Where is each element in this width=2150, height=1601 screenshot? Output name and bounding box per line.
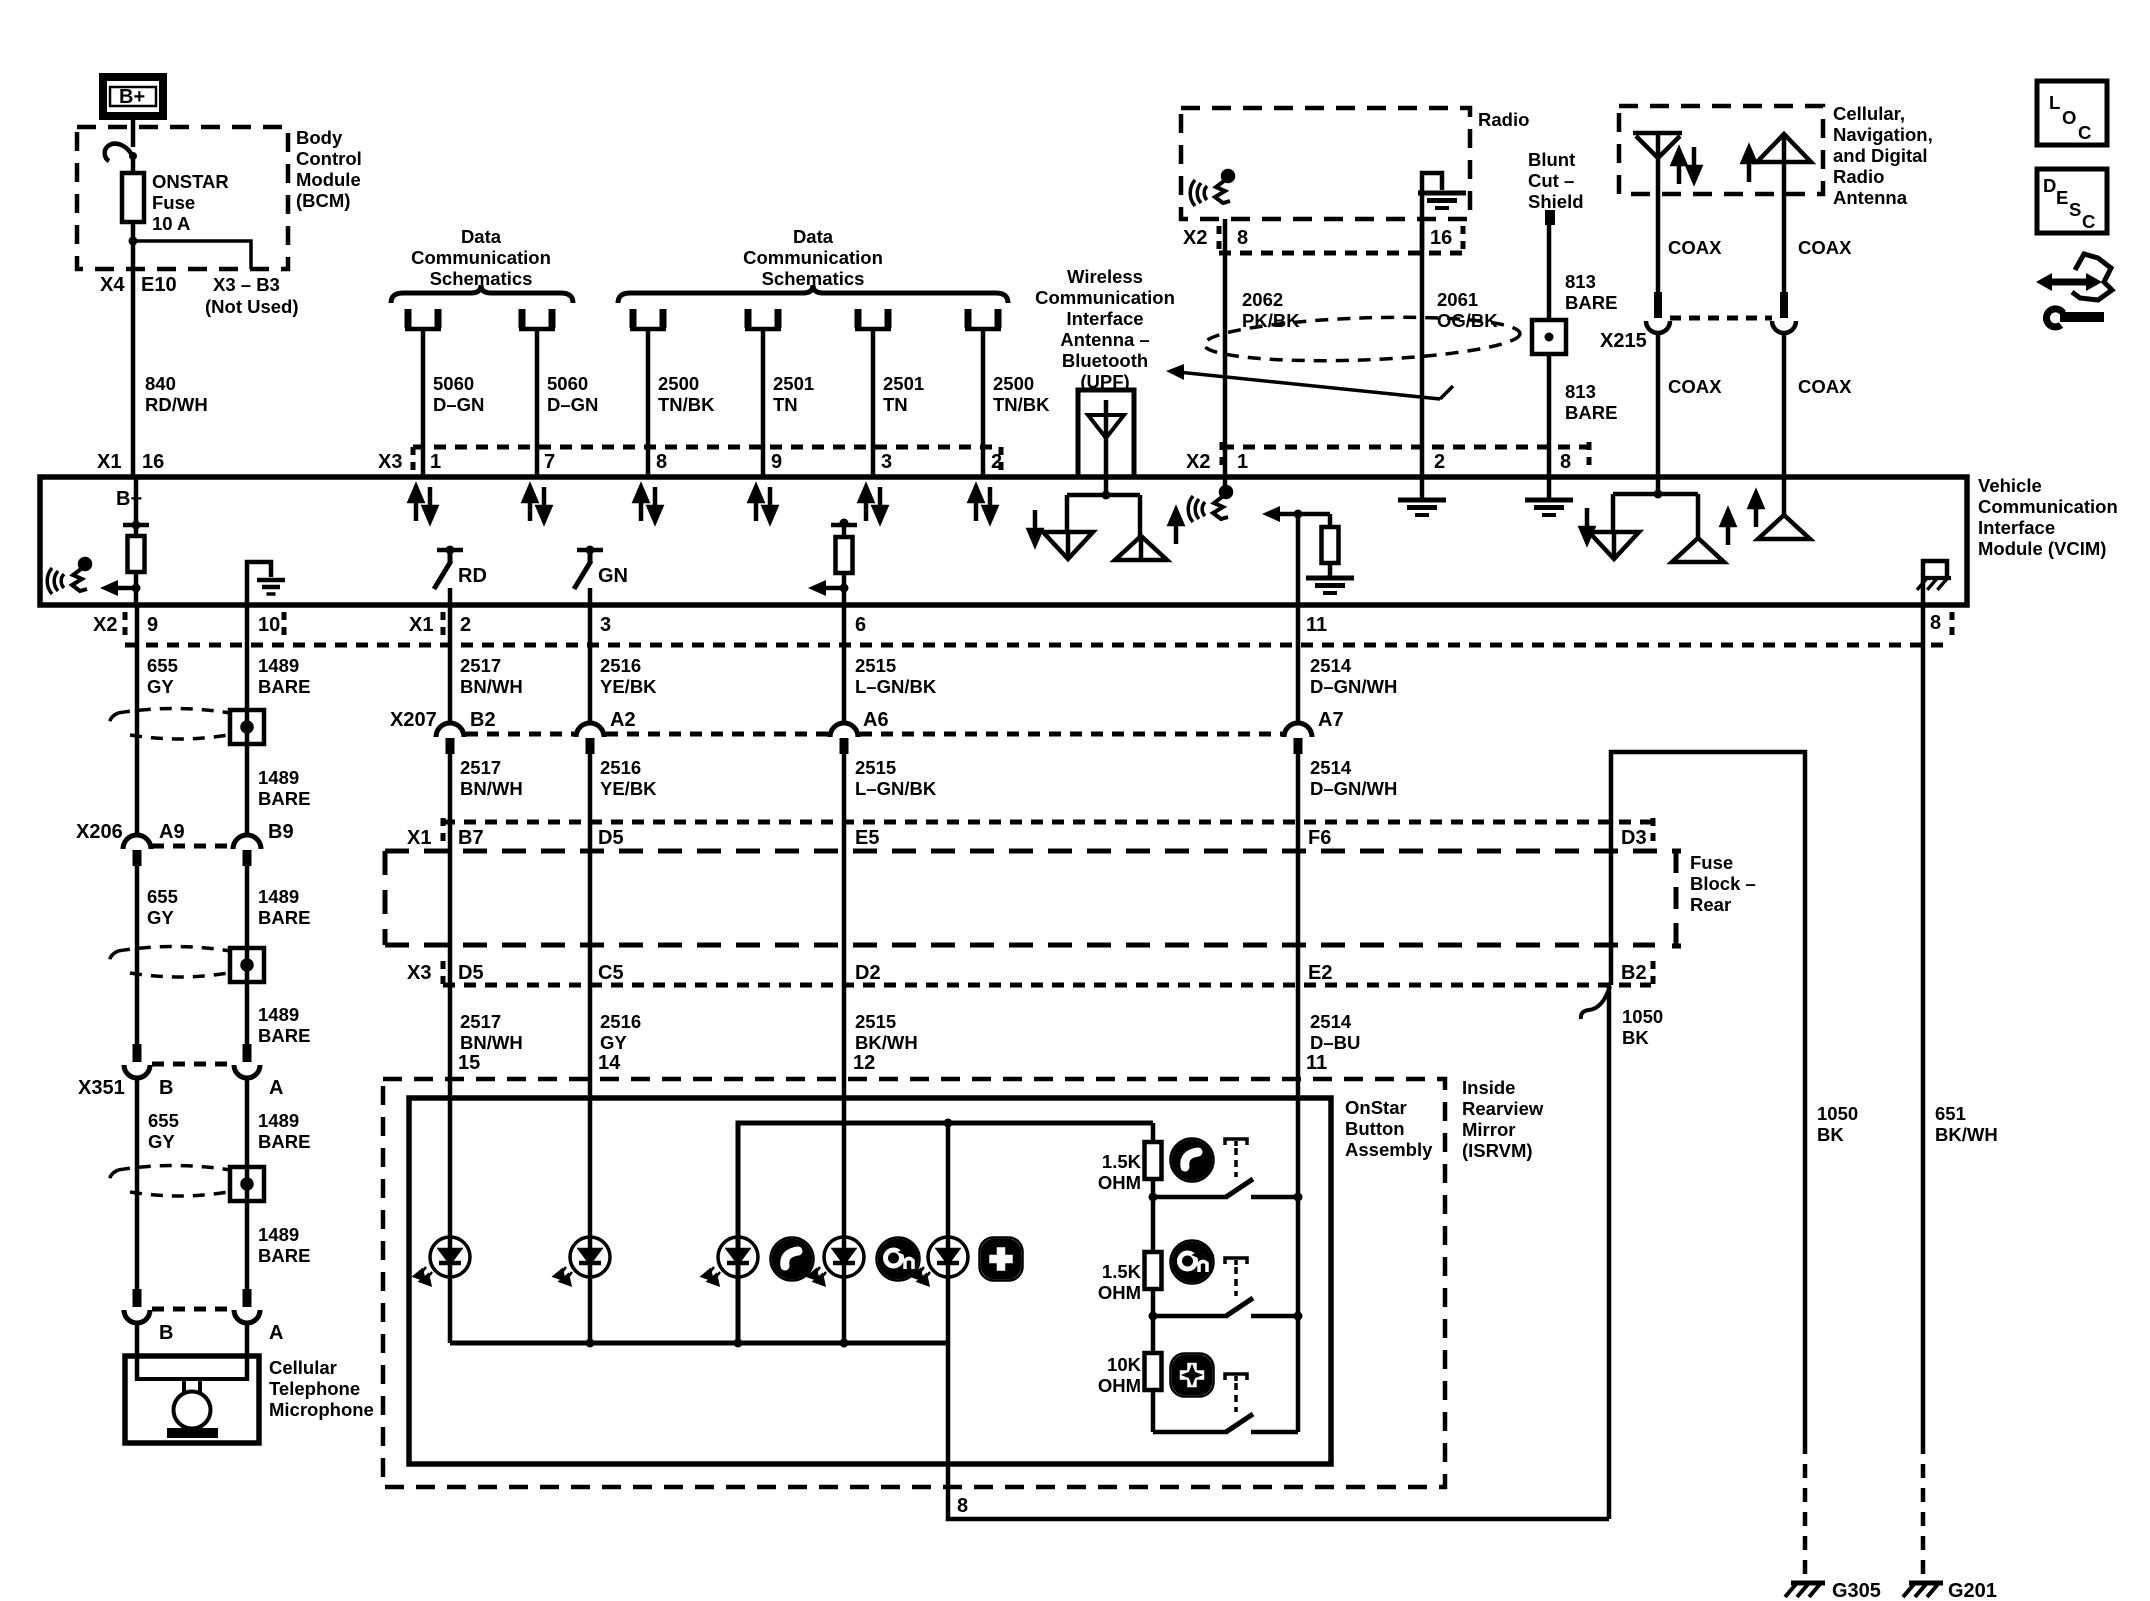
svg-text:3: 3 [881,451,892,473]
svg-text:L–GN/BK: L–GN/BK [855,676,937,697]
Fuse Block Rear label bracket [1672,851,1681,946]
svg-text:Mirror: Mirror [1462,1119,1515,1140]
svg-text:Body: Body [296,127,343,148]
svg-text:(BCM): (BCM) [296,190,350,211]
svg-text:Cut –: Cut – [1528,170,1574,191]
svg-text:D–BU: D–BU [1310,1032,1360,1053]
Body Control Module (BCM) dashed box [77,127,288,269]
svg-text:2517: 2517 [460,655,501,676]
wire 651 BK/WH [1921,605,1926,1440]
svg-text:Radio: Radio [1478,109,1529,130]
svg-text:X4: X4 [100,274,125,296]
svg-text:A9: A9 [159,821,185,843]
svg-text:Module (VCIM): Module (VCIM) [1978,538,2106,559]
svg-text:15: 15 [458,1052,480,1074]
svg-text:1050: 1050 [1622,1006,1663,1027]
internal chassis ground pin 8 VCIM right [1917,561,1951,605]
svg-text:(ISRVM): (ISRVM) [1462,1140,1533,1161]
wire 2516 YE/BK seg2 [588,752,593,822]
svg-text:BK: BK [1622,1027,1649,1048]
svg-text:2515: 2515 [855,655,896,676]
svg-text:TN: TN [883,394,908,415]
internal up arrow coax2 [1750,493,1762,527]
svg-text:OnStar: OnStar [1345,1097,1407,1118]
svg-text:COAX: COAX [1668,376,1722,397]
svg-text:2061: 2061 [1437,289,1478,310]
resistor 10K OHM row3 [1098,1353,1162,1396]
svg-text:COAX: COAX [1668,237,1722,258]
svg-text:C5: C5 [598,962,624,984]
svg-text:651: 651 [1935,1103,1966,1124]
svg-text:3: 3 [600,614,611,636]
splice hook at B2 [1581,986,1610,1019]
wire 2515 L-GN/BK seg2 [842,752,847,822]
wires through fuse block [448,822,453,985]
svg-text:B: B [159,1077,173,1099]
svg-text:Assembly: Assembly [1345,1139,1433,1160]
svg-text:840: 840 [145,373,176,394]
X206 row dashed [152,844,232,849]
svg-text:D–GN/WH: D–GN/WH [1310,676,1397,697]
LED 2 [556,1237,610,1284]
svg-text:655: 655 [147,886,178,907]
svg-text:Telephone: Telephone [269,1378,360,1399]
svg-text:RD/WH: RD/WH [145,394,208,415]
svg-text:9: 9 [147,614,158,636]
svg-text:2516: 2516 [600,1011,641,1032]
svg-text:8: 8 [1237,227,1248,249]
node rail 12 [840,1339,849,1348]
service icon arrows and wrench [2036,254,2112,327]
svg-text:12: 12 [853,1052,875,1074]
svg-text:655: 655 [147,655,178,676]
UPF internal antenna up [1115,536,1167,560]
wire 8 out of button assembly [948,1343,1609,1519]
wire 2517 BN/WH seg3 [448,985,453,1079]
svg-text:BN/WH: BN/WH [460,1032,523,1053]
X351 row dashed [152,1062,232,1067]
svg-text:2500: 2500 [993,373,1034,394]
power feed B+ box [103,77,163,116]
DESC reference box [2037,169,2107,233]
svg-text:813: 813 [1565,381,1596,402]
Vehicle Communication Interface Module (VCIM) box [40,477,1967,605]
data receptacle pin 1 [405,309,441,329]
svg-text:A: A [269,1322,283,1344]
svg-text:F6: F6 [1308,827,1331,849]
svg-text:7: 7 [544,451,555,473]
wire 655 GY upper [135,605,140,836]
svg-text:D2: D2 [855,962,881,984]
svg-text:TN/BK: TN/BK [993,394,1050,415]
svg-text:BARE: BARE [258,907,310,928]
wire 2500 TN/BK pin 8 [646,330,651,477]
svg-text:L: L [2049,92,2060,113]
connector X206 A9 [123,835,151,866]
svg-text:2062: 2062 [1242,289,1283,310]
svg-text:X1: X1 [407,827,431,849]
wire pin 12 to LED4 [842,1079,847,1343]
svg-text:2517: 2517 [460,1011,501,1032]
resistor 1.5K OHM row2 [1098,1252,1162,1303]
svg-text:BARE: BARE [258,1245,310,1266]
wire B2 down to loop bottom [1607,985,1612,1519]
wire to internal ground pin 11 [1328,563,1333,578]
wire 813 BARE upper [1547,224,1552,320]
data receptacle pin 8 [630,309,666,329]
svg-text:Communication: Communication [1978,496,2118,517]
svg-text:Data: Data [461,226,502,247]
wire 1489 BARE mid [245,866,250,1044]
GN switch inside VCIM [574,546,628,606]
wire 2517 BN/WH seg1 [448,605,453,723]
svg-text:10 A: 10 A [152,213,190,234]
connector X207 A7 [1284,723,1312,754]
wire switch to fuse [131,155,136,173]
svg-text:TN/BK: TN/BK [658,394,715,415]
svg-text:2: 2 [460,614,471,636]
svg-text:1.5K: 1.5K [1102,1151,1142,1172]
push switch row2 [1149,1258,1303,1321]
phone key icon [771,1238,814,1281]
svg-text:D–GN: D–GN [433,394,484,415]
COAX wire right lower [1782,333,1787,477]
connector X351 A [234,1044,260,1078]
blunt cut terminal [1545,210,1555,225]
internal resistor to ground pin 11 [1262,506,1330,605]
shield splice crimp 2 [230,948,264,982]
svg-text:GY: GY [147,676,174,697]
svg-text:Data: Data [793,226,834,247]
svg-text:1: 1 [430,451,441,473]
svg-text:Block –: Block – [1690,873,1756,894]
svg-text:8: 8 [656,451,667,473]
wire 2517 BN/WH seg2 [448,752,453,822]
connector X207 B2 [436,723,464,754]
svg-text:9: 9 [771,451,782,473]
internal antenna down [1589,532,1639,559]
svg-text:10: 10 [258,614,280,636]
svg-text:X1: X1 [409,614,433,636]
svg-text:and Digital: and Digital [1833,145,1928,166]
data receptacle pin 3 [855,309,891,329]
OnStar key icon [877,1238,920,1281]
UPF antenna module box [1078,390,1134,477]
svg-text:A7: A7 [1318,709,1344,731]
shield splice crimp 1 [230,710,264,744]
svg-text:BARE: BARE [1565,292,1617,313]
svg-text:Antenna: Antenna [1833,187,1908,208]
push switch row3 [1153,1374,1298,1432]
wire D3 to 1050 BK loop top [1611,752,1805,1440]
twisted pair ellipse 1 [110,709,230,740]
svg-text:GN: GN [598,565,628,587]
fuse block X3 row dotted [443,983,1651,988]
Cellular Telephone Microphone box [125,1356,259,1443]
resistor chain wire top [1151,1123,1156,1142]
svg-text:D–GN/WH: D–GN/WH [1310,778,1397,799]
node at fuse output [129,237,138,246]
wire pin 15 to LED1 [448,1079,453,1343]
svg-text:Antenna –: Antenna – [1060,329,1149,350]
wire fuse to node [131,222,136,269]
wire 2501 TN pin 9 [761,330,766,477]
svg-text:2514: 2514 [1310,655,1352,676]
brace 1 [391,285,573,303]
internal down arrow [1581,508,1593,542]
UPF internal junction [1067,477,1140,536]
data arrows pin 2 [970,487,996,521]
UPF internal antenna down [1043,532,1093,559]
phone key icon row1 [1171,1139,1214,1182]
microphone connector A [234,1289,260,1323]
svg-text:E10: E10 [141,274,177,296]
svg-text:D–GN: D–GN [547,394,598,415]
twisted pair ellipse 2 [110,947,230,978]
coax connector left [1646,292,1670,333]
wire pin 14 to LED2 [588,1079,593,1343]
UPF antenna symbol [1088,400,1124,477]
svg-text:E: E [2056,187,2068,208]
wire into microphone B [135,1323,140,1381]
twisted shield dashed ellipse [1203,312,1520,365]
svg-text:BARE: BARE [258,1131,310,1152]
svg-text:O: O [2062,107,2076,128]
svg-text:1489: 1489 [258,1224,299,1245]
svg-text:Interface: Interface [1978,517,2055,538]
svg-text:Cellular: Cellular [269,1357,337,1378]
svg-text:Rearview: Rearview [1462,1098,1544,1119]
svg-text:16: 16 [1430,227,1452,249]
node LED5 feed [944,1119,953,1128]
svg-text:YE/BK: YE/BK [600,778,657,799]
LED 3 [704,1237,758,1284]
svg-text:TN: TN [773,394,798,415]
svg-text:E5: E5 [855,827,879,849]
X207 row dashed lines [466,732,574,737]
wire 813 BARE lower [1547,354,1552,477]
data arrows pin 9 [750,487,776,521]
svg-text:2501: 2501 [773,373,814,394]
digital antenna symbol [1757,134,1811,293]
wire chain row2-row3 [1151,1316,1156,1353]
svg-text:BK/WH: BK/WH [1935,1124,1998,1145]
wire B+ into BCM [131,116,136,147]
svg-text:2501: 2501 [883,373,924,394]
LOC reference box [2037,81,2107,145]
data receptacle pin 9 [745,309,781,329]
svg-text:1489: 1489 [258,1004,299,1025]
svg-text:1489: 1489 [258,655,299,676]
internal coax junction VCIM [1613,477,1698,538]
svg-text:X2: X2 [1183,227,1207,249]
svg-text:1489: 1489 [258,886,299,907]
svg-text:16: 16 [142,451,164,473]
coax connector right [1772,292,1796,333]
svg-text:Module: Module [296,169,361,190]
wire 2514 D-GN/WH seg2 [1296,752,1301,822]
svg-text:10K: 10K [1107,1354,1142,1375]
svg-text:X207: X207 [390,709,437,731]
wireless handset icon VCIM left [47,559,90,594]
connector X206 B9 [233,835,261,866]
svg-text:A2: A2 [610,709,636,731]
svg-text:Navigation,: Navigation, [1833,124,1933,145]
brace 2 [618,285,1008,303]
wire 2515 L-GN/BK seg1 [842,605,847,723]
wire 2514 D-GN/WH seg1 [1296,605,1301,723]
svg-text:BARE: BARE [1565,402,1617,423]
svg-text:B2: B2 [1621,962,1647,984]
svg-text:BN/WH: BN/WH [460,778,523,799]
svg-text:655: 655 [148,1110,179,1131]
internal ground pin 2 radio [1398,477,1446,515]
svg-text:A6: A6 [863,709,889,731]
UPF down arrow [1029,510,1041,544]
svg-text:A: A [269,1077,283,1099]
resistor 1.5K OHM row1 [1098,1142,1162,1193]
data receptacle pin 7 [519,309,555,329]
antenna arrows up/down [1673,150,1685,184]
svg-text:COAX: COAX [1798,237,1852,258]
svg-text:OHM: OHM [1098,1375,1141,1396]
svg-text:B2: B2 [470,709,496,731]
svg-text:X1: X1 [97,451,121,473]
wireless handset icon under pin X2-1 [1188,477,1231,522]
svg-text:11: 11 [1306,614,1327,636]
svg-text:2517: 2517 [460,757,501,778]
connector X351 B [124,1044,150,1078]
svg-text:OG/BK: OG/BK [1437,310,1498,331]
svg-text:2: 2 [1434,451,1445,473]
wire 2516 YE/BK seg1 [588,605,593,723]
wire 2062 PK/BK [1223,219,1228,477]
svg-text:X2: X2 [93,614,117,636]
svg-text:GY: GY [600,1032,627,1053]
Radio dashed box [1181,108,1470,219]
svg-text:X351: X351 [78,1077,125,1099]
svg-text:D: D [2043,175,2056,196]
shield drain arrow [1166,364,1453,399]
svg-text:GY: GY [147,907,174,928]
svg-text:C: C [2078,122,2091,143]
wire resistor to pin 9 [134,572,139,605]
svg-text:B+: B+ [119,86,145,108]
svg-text:D5: D5 [598,827,624,849]
data arrows pin 3 [860,487,886,521]
button board top rail [738,1123,1153,1343]
wireless handset icon in radio [1190,171,1233,206]
svg-text:1489: 1489 [258,767,299,788]
wire 1050 BK dashed to ground [1803,1440,1808,1577]
push switch row1 [1149,1139,1303,1202]
svg-text:2515: 2515 [855,757,896,778]
svg-text:1.5K: 1.5K [1102,1261,1142,1282]
svg-text:2515: 2515 [855,1011,896,1032]
connector X215 splice box [1532,320,1566,354]
internal ground pin 8 shield [1525,477,1573,515]
Inside Rearview Mirror ISRVM dashed box [383,1079,1445,1487]
svg-text:X3 – B3: X3 – B3 [213,274,280,295]
svg-text:Bluetooth: Bluetooth [1062,350,1148,371]
svg-text:GY: GY [148,1131,175,1152]
LED 4 [810,1237,864,1284]
svg-text:813: 813 [1565,271,1596,292]
svg-text:OHM: OHM [1098,1172,1141,1193]
svg-text:Vehicle: Vehicle [1978,475,2042,496]
wire LED5 [946,1123,951,1343]
wire into microphone A [245,1323,250,1381]
OnStar key icon row2 [1171,1241,1214,1284]
wire 2500 TN/BK pin 2 [981,330,986,477]
svg-text:5060: 5060 [547,373,588,394]
svg-text:ONSTAR: ONSTAR [152,171,229,192]
svg-text:BN/WH: BN/WH [460,676,523,697]
svg-text:YE/BK: YE/BK [600,676,657,697]
wire 655 GY lower [135,1078,140,1289]
resistor internal B+ [128,536,145,572]
svg-text:(Not Used): (Not Used) [205,296,299,317]
wire pin 11 to switch bus [1296,1079,1301,1432]
svg-text:X3: X3 [378,451,402,473]
connector X207 A6 [830,723,858,754]
wire chain row1-row2 [1151,1197,1156,1252]
node rail board [734,1339,743,1348]
data arrows pin 7 [524,487,550,521]
svg-text:1050: 1050 [1817,1103,1858,1124]
wire 651 BK/WH dashed to ground [1921,1440,1926,1577]
OnStar Button Assembly box [409,1098,1331,1464]
svg-text:5060: 5060 [433,373,474,394]
medical cross key icon [980,1238,1023,1281]
svg-text:S: S [2069,199,2081,220]
internal resistor pin 6 [831,519,857,538]
svg-text:Microphone: Microphone [269,1399,374,1420]
svg-text:Inside: Inside [1462,1077,1515,1098]
ground symbol pin 10 [257,580,285,594]
svg-text:1489: 1489 [258,1110,299,1131]
svg-text:Radio: Radio [1833,166,1884,187]
svg-text:Rear: Rear [1690,894,1731,915]
node rail 14 [586,1339,595,1348]
connector row dotted line under VCIM [125,643,1950,648]
internal up arrow [1722,511,1734,545]
internal ground loop pin 10 [247,562,271,605]
wire 5060 D-GN pin 7 [535,330,540,477]
svg-text:Cellular,: Cellular, [1833,103,1905,124]
svg-text:D5: D5 [458,962,484,984]
internal antenna up [1672,538,1724,562]
radio internal ground [1418,173,1466,250]
svg-text:2516: 2516 [600,757,641,778]
node and RF arrow to handset [100,580,141,596]
wire 2061 OG/BK [1420,219,1425,477]
wire 5060 D-GN pin 1 [421,330,426,477]
connector X207 A2 [576,723,604,754]
svg-text:RD: RD [458,565,487,587]
ground G305 [1785,1583,1825,1597]
svg-text:8: 8 [1930,612,1941,634]
connector X3 row at VCIM top [413,445,1001,450]
svg-text:E2: E2 [1308,962,1332,984]
svg-text:2514: 2514 [1310,1011,1352,1032]
wire 2516 GY seg3 [588,985,593,1079]
RD switch inside VCIM [434,546,487,606]
fuse block X1 row dotted [443,820,1651,825]
microphone connector B [124,1289,150,1323]
svg-text:Fuse: Fuse [1690,852,1733,873]
Cellular Navigation Digital Radio Antenna dashed box [1619,106,1823,194]
